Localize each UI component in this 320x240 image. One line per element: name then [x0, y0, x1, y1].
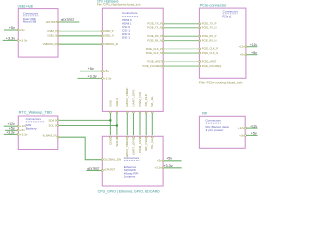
- pin circle SD_CLK cpu bottom: [145, 111, 147, 113]
- svg-text:UART_GPS: UART_GPS: [131, 89, 135, 106]
- svg-text:File: PCIe-routing.kicad_sch: File: PCIe-routing.kicad_sch: [199, 80, 243, 84]
- pin circle SCL rtc: [57, 125, 59, 127]
- pin circle PCIE_nRST cpu: [162, 61, 164, 63]
- svg-text:+12v: +12v: [250, 43, 257, 47]
- svg-text:PCIE_RX_P: PCIE_RX_P: [147, 34, 162, 38]
- svg-text:+5v: +5v: [88, 67, 94, 71]
- pin circle SDA rtc: [57, 120, 59, 122]
- svg-text:Jumpers: Jumpers: [124, 175, 136, 179]
- svg-text:USB2_P: USB2_P: [104, 29, 114, 33]
- svg-text:+3.3v: +3.3v: [6, 36, 16, 40]
- svg-text:PCIE_CLKnREQ: PCIE_CLKnREQ: [143, 64, 162, 68]
- svg-text:GND: GND: [108, 138, 112, 144]
- pin circle GND gpio top: [110, 136, 112, 138]
- pin circle UART_GPS gpio top: [133, 136, 135, 138]
- wire PCIE_CLK_N: [164, 52, 199, 54]
- pin circle +5v hub: [17, 29, 19, 31]
- pin circle PCIE_TX_P cpu: [162, 23, 164, 25]
- wire +12v (PWR): [246, 127, 257, 129]
- svg-text:GPIO_VREF: GPIO_VREF: [125, 87, 129, 106]
- svg-text:PCIE_CLK_P: PCIE_CLK_P: [146, 47, 162, 51]
- pin circle WL_GL cpu bottom: [151, 111, 153, 113]
- svg-text:+12v: +12v: [20, 124, 27, 128]
- wire nEXTRST stub: [59, 21, 79, 23]
- pin circle PCIE_CLK_N pcie: [199, 52, 201, 54]
- pin circle +5v cpu: [102, 70, 104, 72]
- svg-text:DSI 1: DSI 1: [122, 36, 130, 40]
- pin circle GPIO_VREF cpu bottom: [126, 111, 128, 113]
- wire SOL0 vertical: [116, 113, 118, 135]
- svg-text:nEXTRST: nEXTRST: [87, 167, 100, 171]
- pin circle +5v rtc: [17, 129, 19, 131]
- wire +5v (RTC): [5, 129, 17, 131]
- pin circle PWM_FAN gpio top: [139, 136, 141, 138]
- svg-text:+12v: +12v: [238, 45, 245, 49]
- wire nEXTRST stub (bottom): [86, 170, 101, 172]
- pin circle UART_GPS cpu bottom: [133, 111, 135, 113]
- wire +12v (PCIe right): [247, 46, 258, 48]
- wire USB2_N: [59, 35, 102, 37]
- svg-text:SOL0: SOL0: [115, 138, 119, 147]
- pin circle USB2_N cpu: [102, 35, 104, 37]
- sheet CPU_GPIO: [102, 136, 163, 186]
- wire PCIE_RX_N: [164, 40, 199, 42]
- wire +3.3v (GPIO right): [164, 167, 182, 169]
- svg-text:PCIe x1: PCIe x1: [223, 15, 232, 19]
- svg-text:+5v: +5v: [239, 133, 245, 137]
- svg-text:PWM_FAN: PWM_FAN: [138, 138, 142, 153]
- svg-text:SDA 0: SDA 0: [49, 118, 57, 122]
- svg-text:PCIE_TX_N: PCIE_TX_N: [147, 26, 162, 30]
- pin circle PCIE_RX_P cpu: [162, 35, 164, 37]
- svg-text:PWR: PWR: [202, 112, 208, 116]
- svg-text:File: CPU_HighSpeed.kicad_sch: File: CPU_HighSpeed.kicad_sch: [97, 3, 141, 7]
- pin circle PCIE_TX_N cpu: [162, 27, 164, 29]
- pin circle nEXTRST: [57, 21, 59, 23]
- svg-text:Connectors: Connectors: [23, 11, 39, 15]
- svg-text:GPIO_VREF: GPIO_VREF: [125, 138, 129, 157]
- svg-text:PCIE_TX_P: PCIE_TX_P: [147, 22, 162, 26]
- svg-text:USB2_P: USB2_P: [47, 29, 57, 33]
- pin circle +3.3v hub: [17, 40, 19, 42]
- svg-text:USB2_N: USB2_N: [47, 34, 57, 38]
- pin circle PCIE_RX_P pcie: [199, 35, 201, 37]
- svg-text:Connectors: Connectors: [26, 117, 42, 121]
- pin circle PCIE_CLK_P cpu: [162, 48, 164, 50]
- svg-text:+5v: +5v: [20, 128, 26, 132]
- pin circle PCIE_RX_N cpu: [162, 40, 164, 42]
- pin circle +12v pcie: [245, 46, 247, 48]
- svg-text:+12v: +12v: [250, 124, 257, 128]
- svg-text:Connector: Connector: [223, 9, 238, 13]
- pin circle USB2_P cpu: [102, 30, 104, 32]
- svg-text:+5v: +5v: [240, 53, 246, 57]
- svg-text:+5v: +5v: [251, 132, 257, 136]
- sheet RTC_Wakeup_TBD: [18, 116, 58, 150]
- svg-text:nCPURST: nCPURST: [104, 167, 116, 171]
- wire +3.3v (CPU left): [78, 77, 102, 79]
- separator dashes: [223, 13, 238, 15]
- wire +12v (RTC): [4, 125, 18, 127]
- svg-text:PCIE_CLK_N: PCIE_CLK_N: [146, 51, 162, 55]
- pin circle PCIE_nRST pcie: [199, 61, 201, 63]
- wire PCIE_CLK_P: [164, 48, 199, 50]
- pin circle PWM_FAN cpu bottom: [139, 111, 141, 113]
- svg-text:PCIE_RX_N: PCIE_RX_N: [202, 39, 217, 43]
- svg-text:CPU_GPIO | Ethernet, GPIO, SDC: CPU_GPIO | Ethernet, GPIO, SDCARD: [98, 190, 161, 194]
- pin circle USBORIG_ID hub: [57, 43, 59, 45]
- svg-text:GND: GND: [108, 100, 112, 106]
- wire PCIE_RX_P: [164, 35, 199, 37]
- svg-text:+12v: +12v: [238, 126, 245, 130]
- pin circle +3.3v cpu: [102, 78, 104, 80]
- wire +5v (PCIe right): [247, 54, 258, 56]
- svg-text:USB2-HUB: USB2-HUB: [18, 5, 34, 9]
- svg-text:+5v: +5v: [251, 51, 257, 55]
- pin circle W_WAKE rtc: [57, 136, 59, 138]
- wire PCIE_nRST: [164, 61, 199, 63]
- wire +5v to hub: [4, 29, 17, 31]
- svg-text:PCIE_RX_N: PCIE_RX_N: [147, 39, 162, 43]
- wire SDA 0: [59, 119, 111, 121]
- pin circle +3.3v rtc: [17, 134, 19, 136]
- svg-text:PWM_FAN: PWM_FAN: [138, 92, 142, 107]
- wire +3.3v to hub: [3, 39, 18, 41]
- svg-text:GLOBAL_EN: GLOBAL_EN: [104, 157, 122, 161]
- svg-text:Connectors: Connectors: [122, 11, 138, 15]
- pin circle nCPURST: [101, 170, 103, 172]
- svg-text:Battery: Battery: [26, 126, 38, 130]
- svg-text:MicroUSB: MicroUSB: [23, 19, 36, 23]
- svg-text:USB2_N: USB2_N: [104, 34, 114, 38]
- pin circle +5v gpio: [162, 160, 164, 162]
- svg-text:+3.3v: +3.3v: [104, 76, 112, 80]
- pin circle PCIE_CLKnREQ cpu: [162, 65, 164, 67]
- svg-text:RTC_Wakeup_TBD: RTC_Wakeup_TBD: [19, 111, 53, 115]
- svg-text:PCIE_CLKnREQ: PCIE_CLKnREQ: [202, 64, 221, 68]
- svg-text:PCIE_RX_P: PCIE_RX_P: [202, 34, 217, 38]
- separator dashes: [26, 121, 45, 123]
- sheet USB2-HUB: [18, 9, 58, 58]
- svg-text:PCIE_nRST: PCIE_nRST: [147, 60, 162, 64]
- svg-text:PCIE_TX_N: PCIE_TX_N: [202, 26, 217, 30]
- pin circle SOL0 cpu bottom: [116, 111, 118, 113]
- svg-text:+5v: +5v: [104, 69, 110, 73]
- svg-text:WL_GL: WL_GL: [150, 95, 154, 106]
- separator dashes: [124, 159, 139, 161]
- pin circle SOL0 gpio top: [116, 136, 118, 138]
- wire PCIE_CLKnREQ: [164, 65, 199, 67]
- pin circle PCIE_RX_N pcie: [199, 40, 201, 42]
- svg-text:+3.3v: +3.3v: [154, 166, 162, 170]
- junction SCL: [116, 125, 118, 127]
- svg-text:+3.3v: +3.3v: [20, 132, 28, 136]
- wire GPIO_VREF vertical: [126, 113, 128, 135]
- wire +5v (CPU left): [80, 70, 102, 72]
- pin circle GPIO_VREF gpio top: [126, 136, 128, 138]
- pin circle +12v pwr: [245, 127, 247, 129]
- svg-text:PCIe-connector: PCIe-connector: [200, 4, 228, 8]
- pin circle +5v pcie: [245, 54, 247, 56]
- pin circle +3.3v gpio: [162, 167, 164, 169]
- svg-text:nEXTRST: nEXTRST: [61, 18, 75, 22]
- svg-text:USBORIG_ID: USBORIG_ID: [104, 42, 118, 46]
- wire WL_GL vertical: [151, 113, 153, 135]
- pin circle SD_CLK gpio top: [145, 136, 147, 138]
- svg-text:SD_CLK: SD_CLK: [144, 138, 148, 151]
- wire SD_CLK vertical: [145, 113, 147, 135]
- svg-text:PCIE_nRST: PCIE_nRST: [202, 59, 217, 63]
- pin circle USB2_N hub: [57, 35, 59, 37]
- wire PCIE_TX_P: [164, 23, 199, 25]
- wire +3.3v (RTC): [4, 133, 18, 135]
- pin circle PCIE_TX_P pcie: [199, 23, 201, 25]
- separator dashes: [206, 122, 221, 124]
- junction SDA: [109, 119, 111, 121]
- pin circle WL_GL gpio top: [151, 136, 153, 138]
- wire UART_GPS vertical: [133, 113, 135, 135]
- pin circle PCIE_CLK_N cpu: [162, 52, 164, 54]
- svg-text:+5v: +5v: [157, 159, 163, 163]
- wire +5v (PWR): [246, 134, 257, 136]
- pin circle USBORIG_ID cpu: [102, 43, 104, 45]
- wire USBORIG_ID: [59, 43, 102, 45]
- svg-text:UART_GPS: UART_GPS: [131, 138, 135, 155]
- svg-text:+3.3v: +3.3v: [87, 75, 97, 79]
- pin circle GND cpu bottom: [110, 111, 112, 113]
- separator dashes: [23, 15, 38, 17]
- svg-text:SD_CLK: SD_CLK: [144, 94, 148, 107]
- svg-text:SOL0: SOL0: [115, 98, 119, 107]
- svg-text:WL_GL: WL_GL: [150, 138, 154, 149]
- wire W_WAKE_ON to GLOBAL_EN: [59, 137, 102, 160]
- svg-text:+3.3v: +3.3v: [163, 164, 173, 168]
- pin circle USB2_P hub: [57, 30, 59, 32]
- svg-text:SCL 0: SCL 0: [49, 123, 57, 127]
- pin circle PCIE_TX_N pcie: [199, 27, 201, 29]
- pin circle PCIE_CLKnREQ pcie: [199, 65, 201, 67]
- svg-text:nEXTRST: nEXTRST: [46, 20, 58, 24]
- svg-text:4 pin power: 4 pin power: [206, 128, 224, 132]
- pin circle GLOBAL_EN: [101, 159, 103, 161]
- svg-text:+5v: +5v: [166, 157, 172, 161]
- sheet CPU_HighSpeed: [102, 8, 163, 111]
- wire PCIE_TX_N: [164, 27, 199, 29]
- wire PWM_FAN vertical: [139, 113, 141, 135]
- svg-text:+5v: +5v: [9, 26, 15, 30]
- wire SCL 0: [59, 125, 117, 127]
- svg-text:Connectors: Connectors: [206, 119, 222, 123]
- wire +5v (GPIO right): [164, 160, 182, 162]
- svg-text:USBORIG_ID: USBORIG_ID: [43, 42, 57, 46]
- svg-text:+3.3v: +3.3v: [6, 130, 15, 134]
- svg-text:PCIE_CLK_N: PCIE_CLK_N: [202, 51, 218, 55]
- svg-text:+5v: +5v: [20, 28, 26, 32]
- sheet PWR: [199, 116, 245, 148]
- pin circle +12v rtc: [17, 125, 19, 127]
- wire USB2_P: [59, 30, 102, 32]
- pin circle +5v pwr: [245, 135, 247, 137]
- svg-text:W_WAKE_ON: W_WAKE_ON: [43, 134, 57, 138]
- pin circle PCIE_CLK_P pcie: [199, 48, 201, 50]
- sheet PCIe-connector: [199, 8, 246, 78]
- svg-text:PCIE_TX_P: PCIE_TX_P: [202, 22, 217, 26]
- separator dashes: [122, 15, 138, 17]
- wire GND vertical: [109, 113, 111, 135]
- svg-text:+3.3v: +3.3v: [20, 38, 28, 42]
- svg-text:PCIE_CLK_P: PCIE_CLK_P: [202, 47, 218, 51]
